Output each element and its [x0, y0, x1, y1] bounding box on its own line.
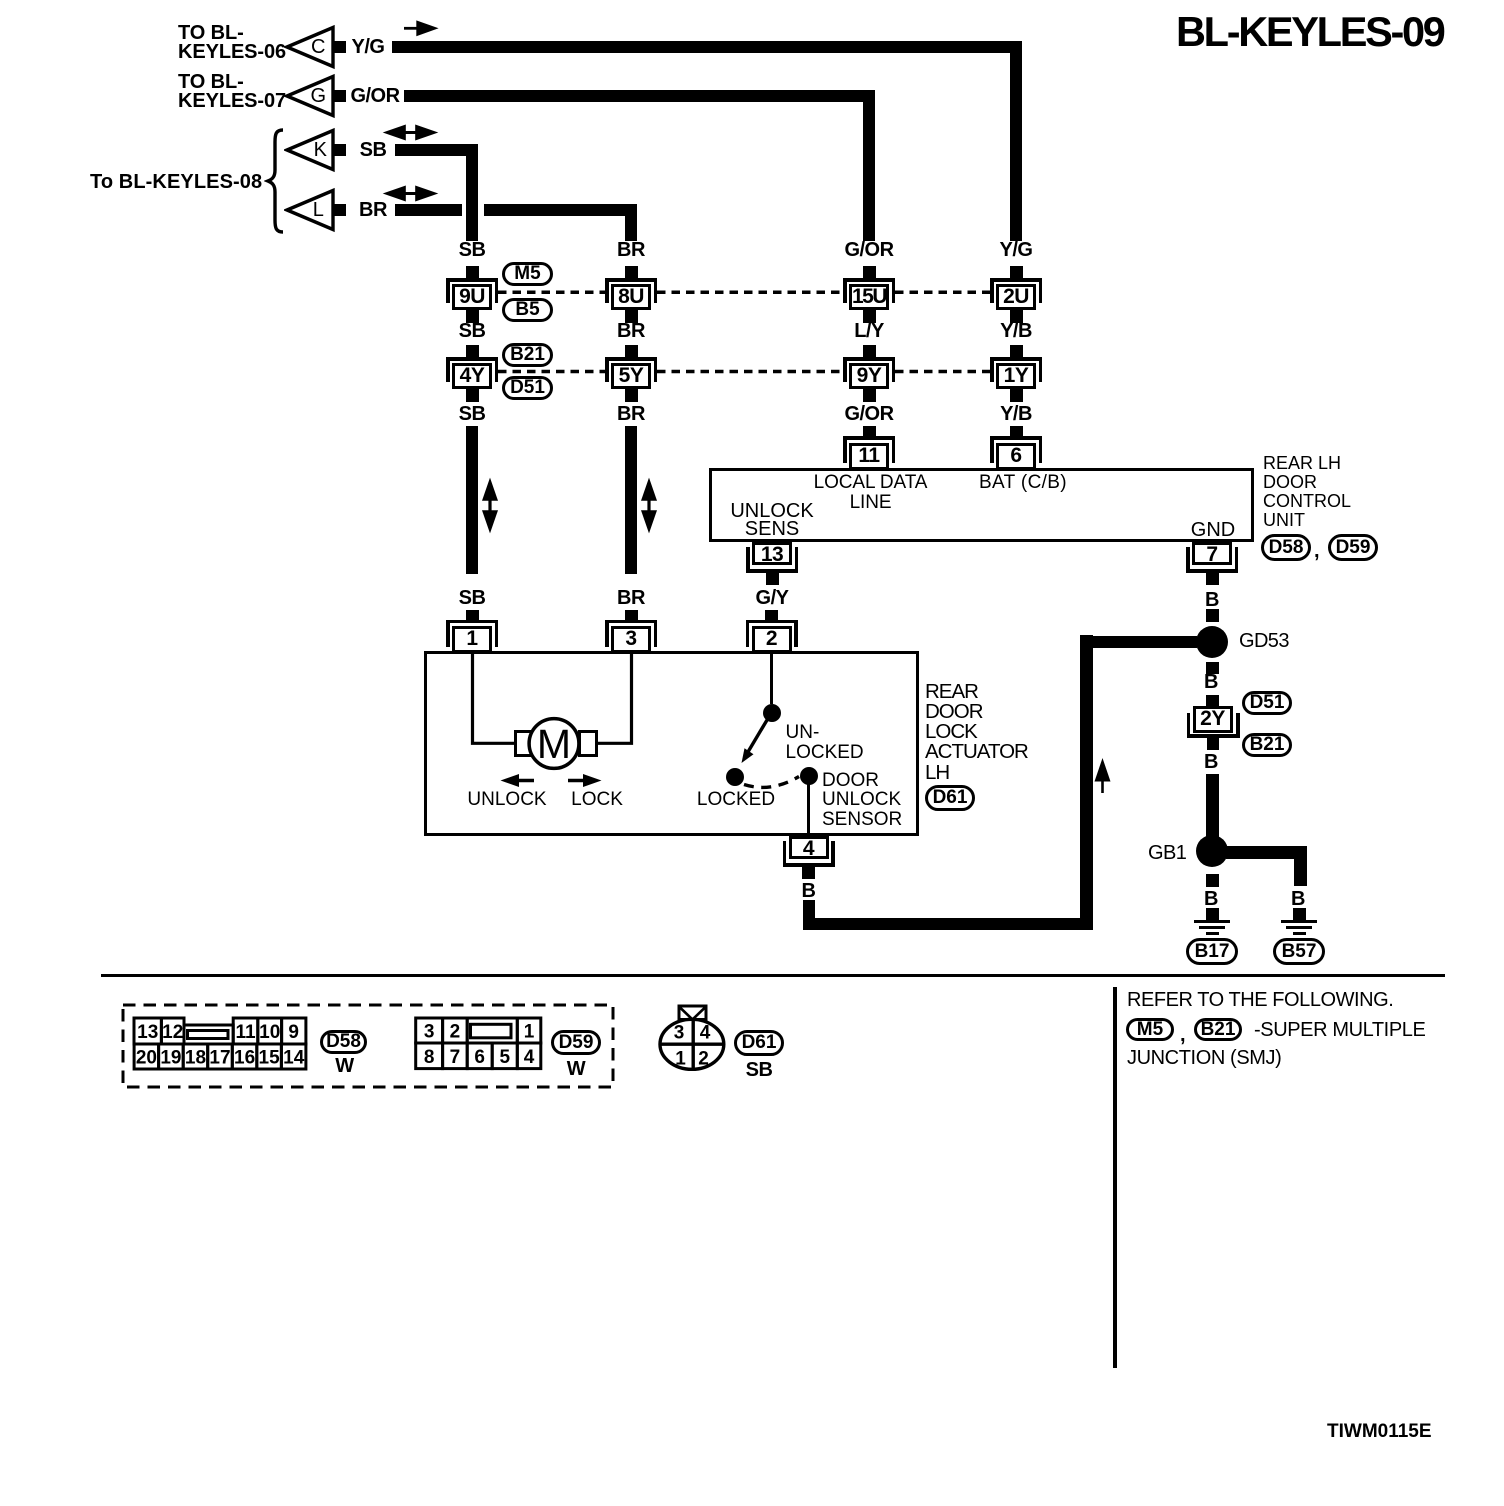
- connector arrow G: [284, 71, 344, 121]
- stub C: [333, 41, 346, 53]
- oval M5 refer: [1126, 1018, 1174, 1041]
- wire stub into 2Y: [1206, 695, 1219, 707]
- oval D58: [1261, 534, 1311, 561]
- connector arrow K: [284, 125, 344, 175]
- oval B57: [1273, 938, 1325, 965]
- double vertical arrow SB: [481, 477, 499, 534]
- label B left ground: [1204, 889, 1218, 909]
- label B above 2Y: [1204, 672, 1218, 692]
- label REAR LH DOOR CONTROL UNIT: [1263, 454, 1351, 531]
- svg-text:1: 1: [524, 1022, 535, 1043]
- wire G/OR horizontal: [404, 90, 875, 102]
- title BL-KEYLES-09: [1176, 11, 1444, 53]
- stub left ground: [1206, 908, 1219, 922]
- label B below pin 7: [1205, 590, 1219, 610]
- label B right ground: [1291, 889, 1305, 909]
- connector arrow L: [284, 185, 344, 235]
- door unlock sensor node: [800, 767, 818, 785]
- svg-text:3: 3: [674, 1023, 685, 1044]
- locked contact node: [726, 768, 744, 786]
- label Y/B below 1Y: [1000, 404, 1032, 424]
- label G/Y above pin 2: [756, 588, 789, 608]
- label UNLOCK: [467, 790, 546, 810]
- oval B21 refer: [1194, 1018, 1242, 1041]
- label SB below 4Y: [459, 404, 486, 424]
- ground symbol B17: [1194, 920, 1230, 935]
- control unit box: [709, 468, 1254, 542]
- connector 2U: [990, 278, 1042, 323]
- oval D51: [502, 376, 553, 400]
- label REFER TO THE FOLLOWING.: [1127, 990, 1393, 1010]
- label W under D58: [335, 1056, 353, 1076]
- oval D58 id: [320, 1030, 367, 1054]
- wire B bottom horizontal: [803, 918, 1093, 931]
- wire Y/G vertical: [1010, 41, 1022, 241]
- connector 4Y: [446, 357, 498, 402]
- motor M1 circle: [524, 713, 584, 773]
- label G/OR above 15U: [844, 240, 893, 260]
- label SB under D61: [746, 1060, 773, 1080]
- wire BR horizontal right segment: [484, 204, 637, 216]
- wire stub into pin 11: [863, 426, 876, 437]
- wire G/OR vertical: [863, 90, 875, 241]
- wire SB horizontal: [395, 144, 478, 156]
- junction GD53: [1196, 626, 1228, 658]
- wire stub into 9Y: [863, 345, 876, 357]
- oval D51 right: [1242, 691, 1292, 715]
- label BR row L: [359, 200, 387, 220]
- wire stub into 2U: [1010, 266, 1023, 279]
- wire stub into pin 1: [466, 610, 479, 621]
- label TO BL-KEYLES-06: [178, 24, 286, 62]
- label REAR DOOR LOCK ACTUATOR LH: [925, 682, 1028, 783]
- label UNLOCK SENS: [730, 503, 813, 539]
- label SB row K: [360, 140, 387, 160]
- wire stub into pin 2: [765, 610, 778, 621]
- wire segment above GD53: [1206, 609, 1219, 622]
- wire segment below GD53: [1206, 662, 1219, 675]
- stub right ground: [1293, 908, 1306, 922]
- oval D61 id: [734, 1030, 784, 1056]
- label B below pin 4: [802, 881, 816, 901]
- svg-text:2: 2: [698, 1049, 709, 1070]
- label G/OR below 9Y: [844, 404, 893, 424]
- wire stub into pin 6: [1010, 426, 1023, 437]
- stub L: [333, 204, 346, 216]
- arrow right above Y/G wire: [402, 20, 440, 37]
- pin 7 connector: [1186, 542, 1238, 587]
- stub G: [333, 90, 346, 102]
- arrow lock right: [566, 772, 604, 789]
- letter G: [310, 86, 325, 106]
- wire 2Y to GB1: [1206, 774, 1219, 839]
- svg-text:11: 11: [235, 1022, 256, 1043]
- svg-text:20: 20: [136, 1048, 157, 1069]
- wire BR vertical: [625, 204, 637, 241]
- svg-text:6: 6: [474, 1047, 485, 1068]
- connector 1Y: [990, 357, 1042, 402]
- label TIWM0115E: [1327, 1422, 1432, 1442]
- wire pin1 to motor: [430, 650, 530, 750]
- connector 9Y: [843, 357, 895, 402]
- svg-text:12: 12: [162, 1022, 183, 1043]
- pin 13 connector: [746, 542, 798, 587]
- comma between D58 D59: [1314, 541, 1319, 561]
- label BAT (C/B): [979, 473, 1067, 493]
- wire into GD53: [1092, 636, 1197, 649]
- label BR above pin 3: [617, 588, 645, 608]
- label JUNCTION (SMJ): [1127, 1048, 1281, 1068]
- svg-text:19: 19: [160, 1048, 181, 1069]
- svg-text:16: 16: [234, 1048, 255, 1069]
- svg-text:5: 5: [500, 1047, 511, 1068]
- label Y/G: [352, 37, 385, 57]
- svg-text:4: 4: [700, 1023, 711, 1044]
- wire stub into 1Y: [1010, 345, 1023, 357]
- svg-text:15: 15: [259, 1048, 281, 1069]
- svg-text:1: 1: [675, 1049, 686, 1070]
- label W under D59: [567, 1059, 585, 1079]
- label DOOR UNLOCK SENSOR: [822, 771, 902, 829]
- label GND: [1191, 520, 1235, 540]
- junction GB1: [1196, 835, 1228, 867]
- motor right tab: [578, 730, 598, 757]
- wire stub into 5Y: [625, 345, 638, 357]
- wire stub into 4Y: [466, 345, 479, 357]
- wire Y/G horizontal: [392, 41, 1022, 53]
- label LOCKED position: [697, 790, 775, 810]
- svg-text:4: 4: [524, 1047, 535, 1068]
- connector 15U: [843, 278, 895, 323]
- connector face D61 circle: [650, 1000, 740, 1080]
- separator line: [101, 974, 1445, 977]
- dashed travel arc: [740, 770, 805, 796]
- oval B5: [502, 298, 553, 322]
- svg-text:8: 8: [424, 1047, 435, 1068]
- svg-text:14: 14: [283, 1048, 305, 1069]
- wire stub into 15U: [863, 266, 876, 279]
- wire SB vertical: [466, 144, 478, 241]
- comma between M5 B21: [1180, 1025, 1185, 1045]
- connector 9U: [446, 278, 498, 323]
- dashed SMJ lines row 1 and row 2: [446, 285, 1006, 375]
- oval B21 right: [1242, 733, 1292, 757]
- wire B right riser: [1080, 635, 1093, 930]
- switch common node: [763, 704, 781, 722]
- label BR between rows: [617, 321, 645, 341]
- oval D59 id: [551, 1030, 601, 1055]
- pin 4 connector: [783, 836, 835, 881]
- label SB above pin 1: [459, 588, 486, 608]
- wire GB1 branch vertical: [1294, 846, 1307, 886]
- connector arrow C: [284, 22, 344, 72]
- arrow unlock left: [498, 772, 536, 789]
- label L/Y between rows: [854, 321, 884, 341]
- label SUPER MULTIPLE: [1254, 1020, 1425, 1040]
- wire segment below GB1: [1206, 874, 1219, 887]
- svg-text:17: 17: [209, 1048, 230, 1069]
- pin 6 connector: [990, 436, 1042, 470]
- label BR above 8U: [617, 240, 645, 260]
- wire SB long vertical: [466, 426, 478, 574]
- pin 11 connector: [843, 436, 895, 470]
- connector face D58 grid: [130, 1014, 330, 1074]
- double vertical arrow BR: [640, 477, 658, 534]
- connector 2Y: [1187, 706, 1240, 751]
- label BR below 5Y: [617, 404, 645, 424]
- connector 5Y: [605, 357, 657, 402]
- label TO BL-KEYLES-07: [178, 73, 286, 111]
- wire stub into pin 3: [625, 610, 638, 621]
- svg-text:13: 13: [137, 1022, 158, 1043]
- wire BR horizontal left segment: [395, 204, 462, 216]
- wire stub into 8U: [625, 266, 638, 279]
- pin 1 connector: [446, 620, 498, 654]
- brace To BL-KEYLES-08: [264, 128, 288, 234]
- pin 3 connector: [605, 620, 657, 654]
- oval D59: [1328, 534, 1378, 561]
- svg-text:9: 9: [288, 1022, 299, 1043]
- wire B from pin 4 vertical: [803, 900, 815, 930]
- label GD53: [1239, 631, 1289, 651]
- svg-text:18: 18: [185, 1048, 206, 1069]
- label UN-LOCKED: [786, 723, 864, 765]
- letter C: [311, 37, 325, 57]
- wire GB1 branch horizontal: [1226, 846, 1307, 859]
- ground symbol B57: [1281, 920, 1317, 935]
- vertical divider line: [1113, 987, 1117, 1368]
- double arrow above BR: [381, 185, 440, 202]
- label LOCAL DATA LINE: [814, 473, 928, 514]
- letter K: [314, 140, 327, 160]
- motor letter M: [537, 724, 571, 765]
- svg-text:7: 7: [450, 1047, 461, 1068]
- wire sensor to pin 4: [807, 784, 810, 836]
- wire pin2 to switch: [770, 654, 773, 704]
- double arrow above SB: [381, 124, 440, 141]
- motor left tab: [514, 730, 534, 757]
- label Y/B between rows: [1000, 321, 1032, 341]
- letter L: [313, 200, 324, 220]
- pin 2 connector: [746, 620, 798, 654]
- connector face D59 grid: [410, 1014, 550, 1074]
- dashed connector-view box: [120, 1002, 616, 1090]
- switch lever with arrow: [735, 706, 780, 768]
- oval B17: [1186, 938, 1238, 965]
- label GB1: [1148, 843, 1186, 863]
- connector 8U: [605, 278, 657, 323]
- label SB above 9U: [459, 240, 486, 260]
- label B below 2Y: [1204, 752, 1218, 772]
- oval D61 ref: [925, 785, 975, 811]
- label LOCK: [571, 790, 623, 810]
- svg-text:3: 3: [424, 1022, 435, 1043]
- wire stub into 9U: [466, 266, 479, 279]
- oval M5: [502, 262, 553, 286]
- label To BL-KEYLES-08: [90, 172, 262, 192]
- wire BR long vertical: [625, 426, 637, 574]
- label SB between rows: [459, 321, 486, 341]
- svg-text:10: 10: [259, 1022, 280, 1043]
- up arrow beside riser: [1094, 756, 1112, 796]
- label G/OR: [350, 86, 399, 106]
- svg-text:2: 2: [450, 1022, 461, 1043]
- oval B21: [502, 343, 553, 367]
- label Y/G above 2U: [1000, 240, 1033, 260]
- wire pin3 to motor: [560, 650, 660, 750]
- stub K: [333, 144, 346, 156]
- actuator box: [424, 651, 919, 836]
